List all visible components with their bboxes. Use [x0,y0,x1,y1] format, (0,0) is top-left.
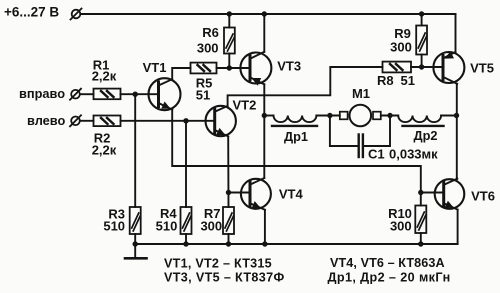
node junction R5/R6/VT3 [227,65,232,70]
svg-text:С1: С1 [368,147,385,162]
wire VT4 base from junction [229,192,251,194]
wire vlevo terminal to R2 [80,120,94,122]
wire Dr1 to motor left [316,115,339,117]
svg-text:M1: M1 [352,86,370,101]
wire R3 top from vpravo node [134,94,136,207]
svg-text:VT5: VT5 [470,60,494,75]
svg-text:VT1, VT2 – КТ315: VT1, VT2 – КТ315 [164,257,272,271]
resistor R3 [130,207,141,234]
inductor Dr2 [398,116,443,126]
wire R1 to VT1 base [121,93,159,95]
wire VT5 collector down to VT6 collector [456,84,458,179]
node junction R8/R9/VT5 [419,64,424,69]
transistor VT2 [206,106,236,137]
svg-text:VT4, VT6 – КТ863А: VT4, VT6 – КТ863А [330,256,445,270]
svg-text:510: 510 [156,219,178,234]
wire VT3 collector down to VT4 collector [263,84,265,178]
svg-text:51: 51 [196,88,210,103]
wire R9 to node [421,55,423,68]
wire R5 to VT3 base [217,67,251,69]
node junction VT4 emitter/ground [262,241,267,246]
svg-text:300: 300 [197,40,219,55]
wire Dr1 left connection [264,115,273,117]
wire VT1 collector to R5 [172,68,190,79]
capacitor C1 [330,116,390,158]
wire VT2 collector to R8 [228,67,383,106]
wire VT1 emitter down and across to VT6 base [172,110,421,193]
node junction R7/ground [226,241,231,246]
resistor R1 [94,89,121,100]
node junction Dr2/VT5/VT6 [454,113,459,118]
wire top supply rail [81,13,456,15]
node junction R4/ground [183,241,188,246]
node junction R1/R3/VT1 [133,92,138,97]
node junction rail/R9 [419,11,424,16]
svg-text:300: 300 [390,219,412,234]
node junction VT6 base/R10 [418,190,423,195]
svg-text:VT1: VT1 [143,60,167,75]
svg-text:R8: R8 [377,73,394,88]
wire rail down to VT5 emitter [455,14,457,52]
svg-text:VT6: VT6 [471,189,495,204]
svg-text:2,2к: 2,2к [92,143,117,158]
svg-text:вправо: вправо [19,86,65,101]
wire VT2 emitter down to R7 [227,136,229,207]
resistor R5 [191,63,217,74]
wire vpravo terminal to R1 [80,93,94,95]
svg-text:R6: R6 [202,25,219,40]
svg-text:VT4: VT4 [279,187,304,202]
resistor R2 [94,116,121,127]
svg-text:2,2к: 2,2к [92,69,117,84]
resistor R10 [415,206,426,234]
resistor R8 [383,62,412,73]
resistor R7 [223,207,234,234]
resistor R9 [416,26,427,55]
node input terminal vpravo [70,89,81,100]
wire R2 to VT2 base [121,120,215,122]
svg-text:влево: влево [27,113,65,128]
transistor VT5 [433,51,464,84]
wire R7 to ground rail [228,234,230,244]
ground [125,244,147,258]
resistor R6 [224,28,235,54]
svg-text:Др1: Др1 [284,129,308,144]
svg-text:VT3, VT5 – КТ837Ф: VT3, VT5 – КТ837Ф [164,270,285,284]
transistor VT6 [435,179,465,210]
wire VT6 emitter to ground rail [457,210,459,244]
resistor R4 [181,207,192,234]
node +V supply terminal [71,9,82,20]
svg-text:VT2: VT2 [232,97,256,112]
svg-text:510: 510 [103,219,125,234]
svg-text:300: 300 [200,219,222,234]
wire R4 to ground rail [185,234,187,244]
svg-text:51: 51 [401,73,415,88]
node junction rail/VT3 [262,11,267,16]
wire VT6 base from junction [421,192,444,194]
node junction R10/ground [418,241,423,246]
svg-text:Др1, Др2 – 20 мкГн: Др1, Др2 – 20 мкГн [328,271,451,285]
transistor VT3 [240,52,271,86]
wire R3 to ground rail [134,234,136,244]
wire rail to R6 [228,14,230,28]
node junction M1/C1/Dr2 right [387,113,392,118]
node junction R2/R4/VT2 [183,118,188,123]
wire rail to R9 [421,14,423,26]
svg-text:VT3: VT3 [277,59,301,74]
node junction VT2 emitter/R7/VT4 base [226,190,231,195]
motor M1 [340,105,381,127]
wire VT3 emitter to rail [263,14,265,52]
inductor Dr1 [272,116,317,126]
wire Dr2 to VT5/VT6 line [441,115,456,117]
wire R8 to VT5 base [411,66,443,68]
wire R6 to node [228,54,230,69]
node junction Dr1/M1/C1 left [327,113,332,118]
node input terminal vlevo [70,115,81,126]
svg-text:0,033мк: 0,033мк [389,147,438,162]
wire R10 to ground rail [420,233,422,244]
node junction rail/R6 [227,11,232,16]
node junction R3/ground [133,241,138,246]
wire ground rail [135,243,457,245]
wire VT4 emitter to ground rail [264,210,266,244]
transistor VT4 [241,178,271,210]
svg-text:300: 300 [390,40,412,55]
wire motor right to Dr2 [381,115,398,117]
wire R10 top from VT6 base junction [420,193,422,206]
node junction VT3-VT4/Dr1 [262,113,267,118]
svg-text:+6...27 В: +6...27 В [4,4,59,19]
transistor VT1 [149,78,181,110]
wire R4 top from vlevo node [185,121,187,207]
svg-text:Др2: Др2 [413,128,437,143]
